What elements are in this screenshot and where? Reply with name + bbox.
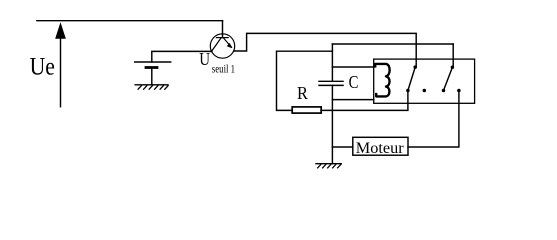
wire battery to ground: [151, 68, 153, 85]
transistor U1 right leg: [224, 38, 232, 47]
resistor R body: [292, 107, 321, 113]
wire coil bottom feed: [332, 99, 373, 101]
wire top horizontal rail: [37, 20, 223, 22]
switch S1 common dot: [406, 89, 410, 93]
switch S1 open contact dot: [423, 89, 427, 93]
transistor U1 base bar: [216, 37, 228, 39]
svg-text:Ue: Ue: [30, 53, 55, 80]
transistor U1 left leg: [212, 38, 222, 51]
wire battery to transistor: [152, 51, 212, 62]
wire transistor output to switch S1: [234, 33, 416, 67]
switch S1 lever: [408, 67, 415, 90]
wire big box right drop to switch S2: [452, 44, 454, 67]
relay coil K1: [375, 64, 389, 97]
transistor U1 circle: [210, 34, 234, 58]
motor box: [353, 137, 408, 155]
node Ue arrow: [60, 30, 62, 107]
transistor U1 emitter arrowhead: [227, 43, 232, 48]
switch S2 open contact dot: [457, 89, 461, 93]
svg-text:Moteur: Moteur: [356, 140, 405, 157]
battery B1 top plate: [135, 61, 171, 63]
ground G1 bar: [135, 84, 168, 86]
switch S2 top contact dot: [451, 66, 455, 70]
wire bus to motor: [332, 146, 352, 148]
capacitor C top plate: [319, 80, 343, 82]
svg-text:seuil 1: seuil 1: [212, 64, 235, 76]
wire R to switch S1 common: [321, 91, 408, 111]
wire big box top edge: [332, 43, 453, 45]
ground G2 bar: [316, 163, 341, 165]
switch S2 lever: [444, 67, 453, 90]
wire left branch box (top edge and left edge down to R): [277, 51, 333, 110]
switch S1 top contact dot: [413, 65, 417, 69]
wire coil top feed: [332, 66, 373, 68]
wire transistor top drop: [222, 21, 224, 35]
wire main bus upper (box corner to capacitor): [331, 44, 333, 81]
wire S2 contact down to motor: [408, 91, 459, 148]
svg-text:C: C: [349, 72, 359, 92]
ground G1 hatches: [138, 86, 168, 89]
transistor U1 collector lead into circle: [222, 34, 224, 37]
switch S2 common dot: [442, 89, 446, 93]
capacitor C bottom plate: [319, 84, 343, 86]
battery B1 bottom plate: [146, 66, 157, 69]
svg-text:U: U: [199, 49, 210, 69]
relay box: [374, 59, 475, 103]
svg-text:R: R: [297, 83, 309, 103]
ground G2 hatches: [318, 165, 341, 168]
wire main bus lower (capacitor to ground): [331, 85, 333, 163]
